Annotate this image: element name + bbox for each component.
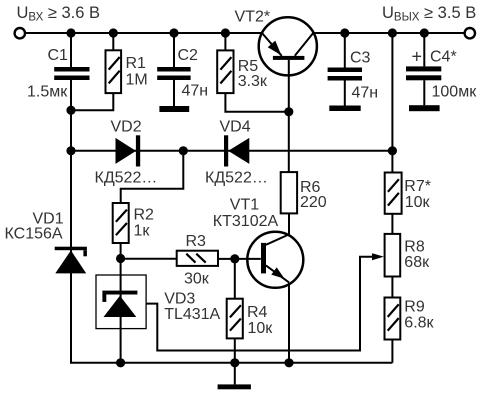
junction dot R4 ground: [230, 358, 239, 367]
svg-text:UВХ ≥ 3.6 В: UВХ ≥ 3.6 В: [17, 4, 101, 24]
ground symbol at C3: [329, 106, 360, 112]
wire VT2 base column: [288, 60, 290, 172]
wire R3 to VT1 base: [218, 258, 261, 260]
svg-text:VT2*: VT2*: [235, 9, 271, 26]
wire top rail input side: [26, 32, 263, 34]
junction dot R5 top: [221, 28, 230, 37]
wire top rail output side: [314, 32, 465, 34]
svg-text:100мк: 100мк: [432, 83, 478, 100]
svg-text:C1: C1: [48, 47, 69, 64]
wire left column: [71, 80, 392, 363]
junction dot diode row left: [66, 146, 75, 155]
svg-text:VT1: VT1: [230, 197, 259, 214]
wire VT1 collector to R6: [288, 213, 290, 234]
transistor VT1 (NPN error amp): [247, 232, 303, 288]
junction dot VT1 base / R4: [230, 254, 239, 263]
transistor VT2 (PNP pass): [259, 17, 317, 75]
resistor R9: [385, 298, 401, 340]
ground symbol at C4: [409, 105, 440, 111]
svg-text:1M: 1M: [126, 72, 148, 89]
resistor R5: [217, 33, 289, 112]
junction dot C2 top: [169, 28, 178, 37]
svg-text:R1: R1: [126, 55, 147, 72]
junction dot R2/VD3/R3 node: [116, 254, 125, 263]
junction dot C3 top: [340, 28, 349, 37]
capacitor C3: [328, 33, 362, 106]
diode VD2: [116, 135, 141, 166]
svg-text:VD3: VD3: [164, 291, 195, 308]
svg-text:UВЫХ ≥ 3.5 В: UВЫХ ≥ 3.5 В: [382, 4, 476, 24]
svg-text:VD4: VD4: [220, 119, 251, 136]
svg-text:R2: R2: [134, 207, 155, 224]
capacitor C2: [157, 33, 190, 106]
wire VD2 node to R2: [121, 151, 184, 203]
shunt regulator VD3 TL431: [96, 259, 146, 363]
svg-text:1.5мк: 1.5мк: [27, 84, 68, 101]
svg-text:C3: C3: [350, 50, 371, 67]
svg-text:10к: 10к: [405, 194, 431, 211]
svg-text:30к: 30к: [184, 271, 210, 288]
resistor R2: [113, 203, 129, 259]
resistor R7*: [385, 173, 402, 214]
junction dot VD2-VD4 node: [179, 146, 188, 155]
capacitor C4 (electrolytic): [406, 33, 441, 105]
svg-text:C2: C2: [178, 47, 199, 64]
input terminal: [15, 28, 25, 38]
trimmer resistor R8: [372, 234, 400, 277]
resistor R3: [177, 251, 218, 266]
svg-text:КТ3102А: КТ3102А: [213, 213, 279, 230]
svg-text:+: +: [412, 47, 423, 67]
svg-text:R9: R9: [404, 299, 425, 316]
svg-text:47н: 47н: [352, 84, 379, 101]
wire right column R7 R8 R9: [391, 33, 393, 363]
svg-text:TL431A: TL431A: [164, 306, 220, 323]
svg-text:3.3к: 3.3к: [238, 73, 268, 90]
svg-text:10к: 10к: [248, 320, 274, 337]
junction dot C4 top: [420, 28, 429, 37]
resistor R6: [281, 172, 297, 213]
resistor R1: [72, 33, 121, 110]
capacitor C1: [54, 33, 89, 80]
resistor R4: [227, 259, 243, 385]
ground symbol at C2: [159, 106, 189, 112]
svg-text:220: 220: [300, 194, 327, 211]
svg-text:R7*: R7*: [404, 178, 431, 195]
zener diode VD1: [55, 247, 87, 274]
wire VT1 emitter to ground rail: [288, 282, 290, 362]
svg-text:47н: 47н: [182, 83, 209, 100]
junction dot VD3 ground: [116, 358, 125, 367]
junction dot R1 bottom / C1 node: [66, 106, 75, 115]
junction dot VT1 emitter ground: [284, 358, 293, 367]
svg-text:R4: R4: [247, 304, 268, 321]
ground symbol main: [218, 384, 251, 389]
output terminal: [465, 28, 475, 38]
wire R2/VD3 node to R3: [121, 258, 177, 260]
svg-text:R8: R8: [404, 239, 425, 256]
svg-text:68к: 68к: [404, 254, 430, 271]
svg-text:1к: 1к: [134, 222, 151, 239]
svg-text:6.8к: 6.8к: [404, 314, 434, 331]
junction dot diode row right / R7: [388, 146, 397, 155]
svg-text:КС156А: КС156А: [5, 226, 63, 243]
svg-text:C4*: C4*: [430, 49, 457, 66]
junction dot R1 top: [109, 28, 118, 37]
wire diode row: [71, 150, 392, 152]
junction dot R7 top: [388, 28, 397, 37]
diode VD4: [224, 135, 249, 166]
svg-text:VD2: VD2: [111, 119, 142, 136]
svg-text:R3: R3: [186, 233, 207, 250]
wire VD3 ref to R8 wiper: [146, 257, 372, 351]
svg-text:КД522…: КД522…: [95, 170, 158, 187]
junction dot C1 top: [66, 28, 75, 37]
svg-text:КД522…: КД522…: [205, 170, 268, 187]
junction dot VT2 base / R5: [284, 107, 293, 116]
